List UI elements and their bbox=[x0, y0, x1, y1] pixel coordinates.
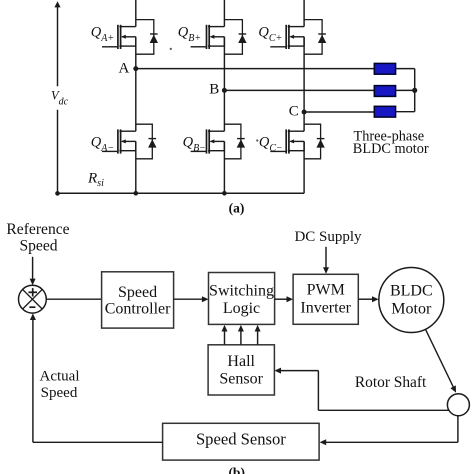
svg-text:Rotor Shaft: Rotor Shaft bbox=[355, 374, 427, 391]
transistor Q_C+ bbox=[270, 20, 322, 55]
wire leg C bottom segment bbox=[303, 141, 305, 193]
wires hall sensor to switching logic (3 arrows) bbox=[222, 325, 228, 345]
node C bbox=[302, 110, 307, 115]
svg-text:Switching: Switching bbox=[209, 283, 274, 300]
svg-text:B: B bbox=[209, 81, 219, 97]
svg-text:Motor: Motor bbox=[391, 300, 432, 317]
wire pwm inverter to bldc motor bbox=[358, 296, 378, 302]
svg-text:C: C bbox=[289, 104, 299, 120]
svg-text:Actual: Actual bbox=[40, 369, 80, 385]
block Hall Sensor bbox=[208, 345, 274, 395]
wire phase C to motor bbox=[304, 111, 374, 113]
svg-text:BLDC motor: BLDC motor bbox=[353, 141, 429, 157]
diode D_C- bbox=[316, 139, 324, 148]
svg-text:Sensor: Sensor bbox=[219, 371, 263, 388]
wire rotor shaft diagonal arrow bbox=[426, 329, 457, 392]
block BLDC Motor (circle) bbox=[379, 268, 444, 333]
transistor Q_A- bbox=[102, 124, 152, 159]
svg-text:Inverter: Inverter bbox=[300, 299, 351, 316]
motor winding phase A (blue) bbox=[374, 63, 395, 74]
wire switching logic to pwm inverter bbox=[275, 296, 294, 302]
transistor Q_A+ bbox=[102, 20, 154, 55]
wire leg C top segment bbox=[303, 0, 305, 27]
wire phase B to motor bbox=[224, 89, 374, 91]
svg-text:Speed: Speed bbox=[19, 237, 57, 254]
junction leg B / bottom rail bbox=[222, 191, 227, 196]
transistor Q_C- bbox=[270, 124, 320, 159]
junction Vdc-rail bbox=[55, 191, 60, 196]
svg-text:Hall: Hall bbox=[227, 353, 255, 370]
diode D_A+ bbox=[150, 34, 158, 43]
stray dot 1 bbox=[170, 48, 172, 50]
wire leg A top segment bbox=[135, 0, 137, 27]
wire leg C middle segment bbox=[303, 37, 305, 131]
diode D_B- bbox=[237, 139, 245, 148]
wire leg A middle segment bbox=[135, 37, 137, 131]
svg-text:A: A bbox=[118, 60, 129, 76]
rotor shaft node (small circle) bbox=[447, 394, 469, 416]
diode D_A- bbox=[148, 139, 156, 148]
block Switching Logic bbox=[209, 273, 275, 325]
svg-text:PWM: PWM bbox=[307, 282, 345, 299]
svg-text:Controller: Controller bbox=[105, 300, 171, 317]
svg-text:Speed Sensor: Speed Sensor bbox=[196, 430, 286, 449]
wire dc supply arrow bbox=[323, 247, 329, 274]
block Speed Sensor bbox=[163, 423, 320, 460]
wire rotor shaft to hall sensor bbox=[274, 368, 448, 411]
label plus sign bbox=[28, 288, 37, 296]
svg-text:Logic: Logic bbox=[223, 300, 260, 317]
wire winding B to star point bbox=[396, 89, 415, 91]
block Speed Controller bbox=[102, 272, 174, 328]
label minus sign bbox=[29, 306, 35, 308]
wire reference speed arrow bbox=[30, 257, 36, 285]
summing junction bbox=[19, 285, 47, 313]
transistor Q_B- bbox=[191, 124, 241, 159]
diode D_B+ bbox=[238, 34, 246, 43]
wire star point vertical bbox=[414, 69, 416, 112]
diode D_C+ bbox=[318, 34, 326, 43]
junction leg A / bottom rail bbox=[134, 191, 139, 196]
svg-text:Reference: Reference bbox=[6, 221, 69, 238]
wire leg B middle segment bbox=[223, 37, 225, 131]
wire speed controller to switching logic bbox=[174, 296, 209, 302]
wire leg B bottom segment bbox=[223, 141, 225, 193]
wire winding C to star point bbox=[396, 111, 415, 113]
junction star point bbox=[412, 88, 417, 93]
wire rotor shaft to speed sensor bbox=[320, 416, 458, 446]
wire leg B top segment bbox=[223, 0, 225, 27]
svg-text:(a): (a) bbox=[229, 200, 245, 215]
wire bottom rail bbox=[58, 192, 305, 194]
supply line Vdc with up arrow bbox=[54, 1, 60, 193]
wire summing junction to speed controller bbox=[46, 298, 101, 300]
wire leg A bottom segment bbox=[135, 141, 137, 193]
wire speed sensor feedback to summing junction bbox=[30, 313, 163, 442]
transistor Q_B+ bbox=[191, 20, 243, 55]
node B bbox=[222, 88, 227, 93]
motor winding phase C (blue) bbox=[374, 106, 395, 117]
stray dot 2 bbox=[256, 139, 258, 141]
svg-text:BLDC: BLDC bbox=[390, 283, 433, 300]
svg-text:Speed: Speed bbox=[41, 385, 78, 401]
svg-text:Speed: Speed bbox=[118, 284, 157, 301]
wire phase A to motor bbox=[136, 68, 375, 70]
svg-text:(b): (b) bbox=[228, 465, 245, 474]
node A bbox=[133, 66, 138, 71]
svg-text:DC Supply: DC Supply bbox=[294, 229, 362, 245]
wire winding A to star point bbox=[396, 68, 415, 70]
motor winding phase B (blue) bbox=[374, 86, 395, 97]
block PWM Inverter bbox=[293, 274, 358, 324]
